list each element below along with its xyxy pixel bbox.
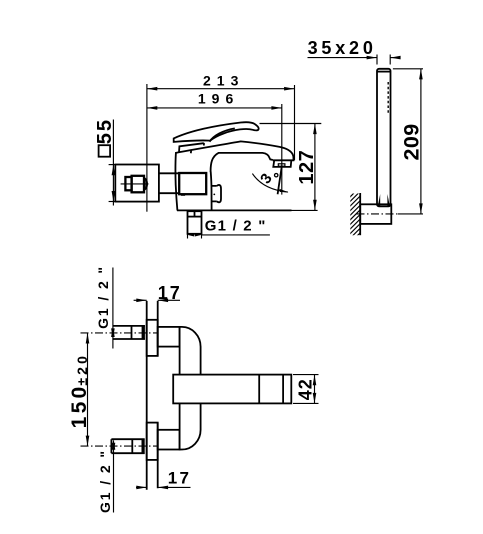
bottom mounting block (158, 430, 180, 450)
top union nipple (113, 325, 145, 327)
svg-text:±20: ±20 (74, 353, 90, 386)
wall line shower (359, 193, 361, 235)
dim tail under G1/2 text (202, 234, 270, 236)
lever handle blade (174, 122, 259, 142)
union fitting hex left section (125, 177, 131, 190)
svg-text:150: 150 (68, 383, 91, 428)
svg-text:35x20: 35x20 (308, 38, 377, 58)
top nipple centerline (81, 332, 159, 334)
wall flange plate (115, 165, 159, 202)
svg-text:209: 209 (400, 123, 424, 160)
wall face / extension line (146, 84, 148, 212)
svg-text:127: 127 (296, 150, 318, 185)
spout underside arch (211, 153, 273, 172)
nipple dim arrows (188, 233, 195, 236)
bottom nipple centerline (81, 445, 159, 447)
dim line 196 (147, 106, 282, 110)
dim line square-55 (112, 120, 116, 206)
bottom escutcheon (147, 423, 158, 460)
bottom union nipple (111, 438, 144, 440)
small tick on shoulder (190, 150, 192, 153)
shower outlet nipple (188, 211, 202, 234)
body right lower edge (210, 172, 213, 211)
svg-text:G1 / 2 ": G1 / 2 " (205, 217, 267, 234)
svg-text:G1 / 2 ": G1 / 2 " (97, 449, 113, 513)
base datum line (177, 209, 292, 211)
thread dim G1/2 bottom (112, 439, 116, 512)
fitting centerline (121, 183, 149, 185)
dim line 213 (147, 87, 295, 91)
svg-text:42: 42 (296, 378, 316, 400)
ext line 209 bottom (398, 213, 423, 215)
faucet body and spout outline (175, 141, 293, 210)
svg-text:196: 196 (198, 90, 239, 106)
spout front (173, 375, 291, 404)
dim line 150 (86, 333, 90, 446)
svg-text:3: 3 (257, 171, 276, 188)
dim line 42 (313, 375, 317, 404)
top escutcheon (147, 320, 158, 356)
diverter knob (212, 186, 217, 202)
shower bracket (360, 204, 391, 224)
svg-text:G1 / 2 ": G1 / 2 " (95, 265, 111, 329)
cartridge cap (179, 143, 204, 153)
aerator (273, 160, 291, 167)
faucet body front (180, 327, 201, 450)
ext line right of 196 / 3deg reference vertical (281, 104, 283, 195)
handle dome curve (210, 128, 235, 141)
svg-text:17: 17 (168, 468, 191, 487)
connection square block (179, 173, 206, 194)
wall hatch (348, 185, 363, 250)
ext line handle top (260, 123, 322, 125)
top mounting block (158, 327, 180, 347)
dim line 17 bottom (136, 486, 191, 490)
dim line 209 (419, 69, 423, 214)
dim line 35x20 (308, 56, 401, 60)
bracket centerline (357, 213, 399, 215)
ext line 209 top (393, 68, 423, 70)
ext line right of 213 (294, 85, 296, 160)
ext lines 35x20 (376, 55, 378, 65)
dim square symbol of square-55 (99, 145, 111, 157)
wall plate strip (146, 301, 148, 490)
dim line 127 (313, 124, 317, 211)
svg-text:213: 213 (203, 72, 244, 88)
handle bottom wedges (378, 194, 380, 206)
ext lines 42 (293, 374, 319, 376)
union fitting hex main (132, 176, 144, 193)
angle slant line (278, 166, 282, 195)
dim line 17 top (134, 299, 180, 303)
spray face dashes (387, 82, 389, 114)
svg-text:17: 17 (158, 283, 182, 303)
thread dim G1/2 top (111, 268, 115, 349)
angle arc 3deg (252, 174, 288, 193)
small mark under square block (181, 194, 185, 196)
hand shower handle (377, 69, 391, 207)
ext ticks flange corners (109, 164, 116, 166)
supply pipe (159, 172, 179, 174)
union fitting curved face (144, 177, 148, 192)
